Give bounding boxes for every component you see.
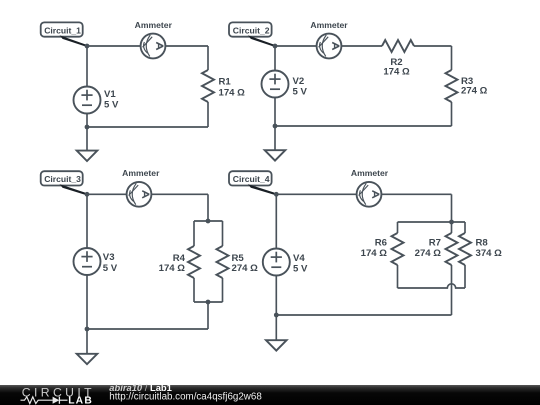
junction C3 parallel top node bbox=[206, 219, 211, 224]
wire C4 R7 top stub bbox=[451, 222, 453, 233]
wire C3 right rail bbox=[207, 194, 209, 221]
wire C2 left upper (node to V2) bbox=[274, 46, 276, 71]
resistor R8 bbox=[459, 233, 471, 265]
svg-text:Circuit_1: Circuit_1 bbox=[44, 25, 81, 35]
svg-text:374 Ω: 374 Ω bbox=[476, 248, 503, 259]
wire C3 R4 bottom stub bbox=[193, 278, 195, 302]
svg-text:5 V: 5 V bbox=[103, 263, 118, 274]
wire C2 left lower (V2 to bottom) bbox=[274, 98, 276, 127]
wire C2 right rail upper bbox=[451, 46, 453, 70]
svg-text:5 V: 5 V bbox=[104, 100, 119, 111]
wire C4 left lower (V4 to bottom) bbox=[275, 276, 277, 316]
wire C4 R7 down wire bbox=[451, 265, 453, 315]
wire C1 right rail lower bbox=[207, 102, 209, 127]
svg-text:174 Ω: 174 Ω bbox=[361, 248, 388, 259]
junction C3 node A bbox=[85, 192, 90, 197]
footer bar bbox=[0, 385, 540, 405]
resistor R7 bbox=[446, 233, 458, 265]
svg-text:174 Ω: 174 Ω bbox=[383, 67, 410, 78]
ground GND1 bbox=[77, 127, 98, 161]
wire C2 top rail a bbox=[275, 45, 382, 47]
svg-text:LAB: LAB bbox=[68, 396, 93, 405]
svg-text:274 Ω: 274 Ω bbox=[415, 248, 442, 259]
wire C3 down wire bbox=[207, 302, 209, 329]
wire C2 right rail lower bbox=[451, 102, 453, 126]
wire C4 R8 top stub bbox=[464, 222, 466, 233]
resistor R6 bbox=[392, 233, 404, 265]
voltage source V3 bbox=[74, 248, 101, 275]
svg-text:Ammeter: Ammeter bbox=[351, 168, 389, 178]
wire C3 R5 bottom stub bbox=[222, 278, 224, 302]
svg-text:274 Ω: 274 Ω bbox=[232, 263, 259, 274]
wire C4 left upper (node to V4) bbox=[275, 194, 277, 248]
svg-text:274 Ω: 274 Ω bbox=[461, 86, 488, 97]
resistor R4 bbox=[188, 246, 200, 278]
wire C3 left lower (V3 to bottom) bbox=[86, 275, 88, 329]
node label Circuit_3 bbox=[41, 171, 83, 185]
svg-text:Ammeter: Ammeter bbox=[135, 20, 173, 30]
CircuitLab logo wordmark bbox=[22, 385, 95, 405]
node label Circuit_1 bbox=[41, 22, 83, 36]
svg-text:R5: R5 bbox=[232, 253, 245, 264]
logo resistor symbol bbox=[21, 397, 53, 404]
junction C1 bottom node bbox=[85, 125, 90, 130]
junction C2 bottom node bbox=[273, 124, 278, 129]
wire C3 top rail bbox=[87, 193, 208, 195]
svg-text:Circuit_2: Circuit_2 bbox=[233, 25, 270, 35]
flag pointer Circuit_2 bbox=[248, 35, 276, 47]
wire C3 R5 top stub bbox=[222, 221, 224, 246]
wire C4 R6 bottom stub bbox=[397, 265, 399, 288]
wire C4 R8 bottom stub bbox=[464, 265, 466, 288]
wire C1 left upper (node to V1) bbox=[86, 46, 88, 87]
wire C3 parallel bottom bar bbox=[194, 301, 223, 303]
wire C1 top rail bbox=[87, 45, 208, 47]
voltage source V1 bbox=[74, 87, 101, 114]
svg-text:Ammeter: Ammeter bbox=[310, 20, 348, 30]
svg-text:Ammeter: Ammeter bbox=[122, 168, 160, 178]
ammeter AM4 bbox=[357, 182, 382, 207]
svg-text:http://circuitlab.com/ca4qsfj6: http://circuitlab.com/ca4qsfj6g2w68 bbox=[109, 392, 262, 403]
junction C4 node A bbox=[274, 192, 279, 197]
ammeter AM1 bbox=[141, 34, 166, 59]
ground GND4 bbox=[266, 315, 287, 351]
voltage source V2 bbox=[262, 71, 289, 98]
logo diode symbol bbox=[53, 397, 68, 404]
wire C4 R6 top stub bbox=[397, 222, 399, 233]
ammeter AM3 bbox=[127, 182, 152, 207]
svg-text:V4: V4 bbox=[293, 253, 305, 264]
flag pointer Circuit_3 bbox=[60, 184, 89, 196]
wire C3 parallel top bar bbox=[194, 220, 223, 222]
wire C3 R4 top stub bbox=[193, 221, 195, 246]
wire C4 bottom rail bbox=[276, 314, 451, 316]
junction C3 parallel bottom node bbox=[206, 300, 211, 305]
node label Circuit_2 bbox=[229, 22, 272, 36]
junction C2 node A bbox=[273, 44, 278, 49]
svg-text:5 V: 5 V bbox=[293, 87, 308, 98]
svg-text:R4: R4 bbox=[173, 253, 186, 264]
svg-text:174 Ω: 174 Ω bbox=[219, 87, 246, 98]
svg-text:V2: V2 bbox=[293, 76, 305, 87]
resistor R5 bbox=[217, 246, 229, 278]
junction C4 bottom node bbox=[274, 313, 279, 318]
ammeter AM2 bbox=[317, 34, 342, 59]
svg-text:V3: V3 bbox=[103, 252, 115, 263]
resistor R3 bbox=[446, 70, 458, 102]
voltage source V4 bbox=[263, 249, 290, 276]
wire C3 left upper (node to V3) bbox=[86, 194, 88, 248]
wire C3 bottom rail bbox=[87, 328, 208, 330]
resistor R2 bbox=[382, 40, 414, 52]
wire C4 right feed bbox=[451, 194, 453, 222]
svg-text:Circuit_4: Circuit_4 bbox=[233, 174, 270, 184]
junction C4 parallel top node bbox=[449, 220, 454, 225]
junction C3 bottom node bbox=[85, 327, 90, 332]
wire C1 bottom rail bbox=[87, 126, 208, 128]
junction C1 node A bbox=[85, 44, 90, 49]
resistor R1 bbox=[202, 70, 214, 102]
svg-text:5 V: 5 V bbox=[293, 263, 308, 274]
wire C4 parallel top bar bbox=[398, 221, 466, 223]
svg-text:174 Ω: 174 Ω bbox=[159, 263, 186, 274]
ground GND2 bbox=[265, 126, 286, 161]
flag pointer Circuit_1 bbox=[60, 35, 89, 47]
svg-text:Circuit_3: Circuit_3 bbox=[44, 174, 81, 184]
wire C4 top rail bbox=[276, 193, 451, 195]
wire C2 bottom rail bbox=[275, 125, 452, 127]
svg-text:R1: R1 bbox=[219, 77, 232, 88]
wire C4 parallel bottom bar with hop over R7 wire bbox=[398, 284, 466, 288]
node label Circuit_4 bbox=[229, 171, 272, 185]
wire C2 top rail b bbox=[414, 45, 452, 47]
svg-text:V1: V1 bbox=[104, 89, 116, 100]
wire C1 right rail upper bbox=[207, 46, 209, 70]
ground GND3 bbox=[77, 329, 98, 364]
wire C1 left lower (V1 to bottom) bbox=[86, 114, 88, 128]
flag pointer Circuit_4 bbox=[248, 184, 278, 196]
